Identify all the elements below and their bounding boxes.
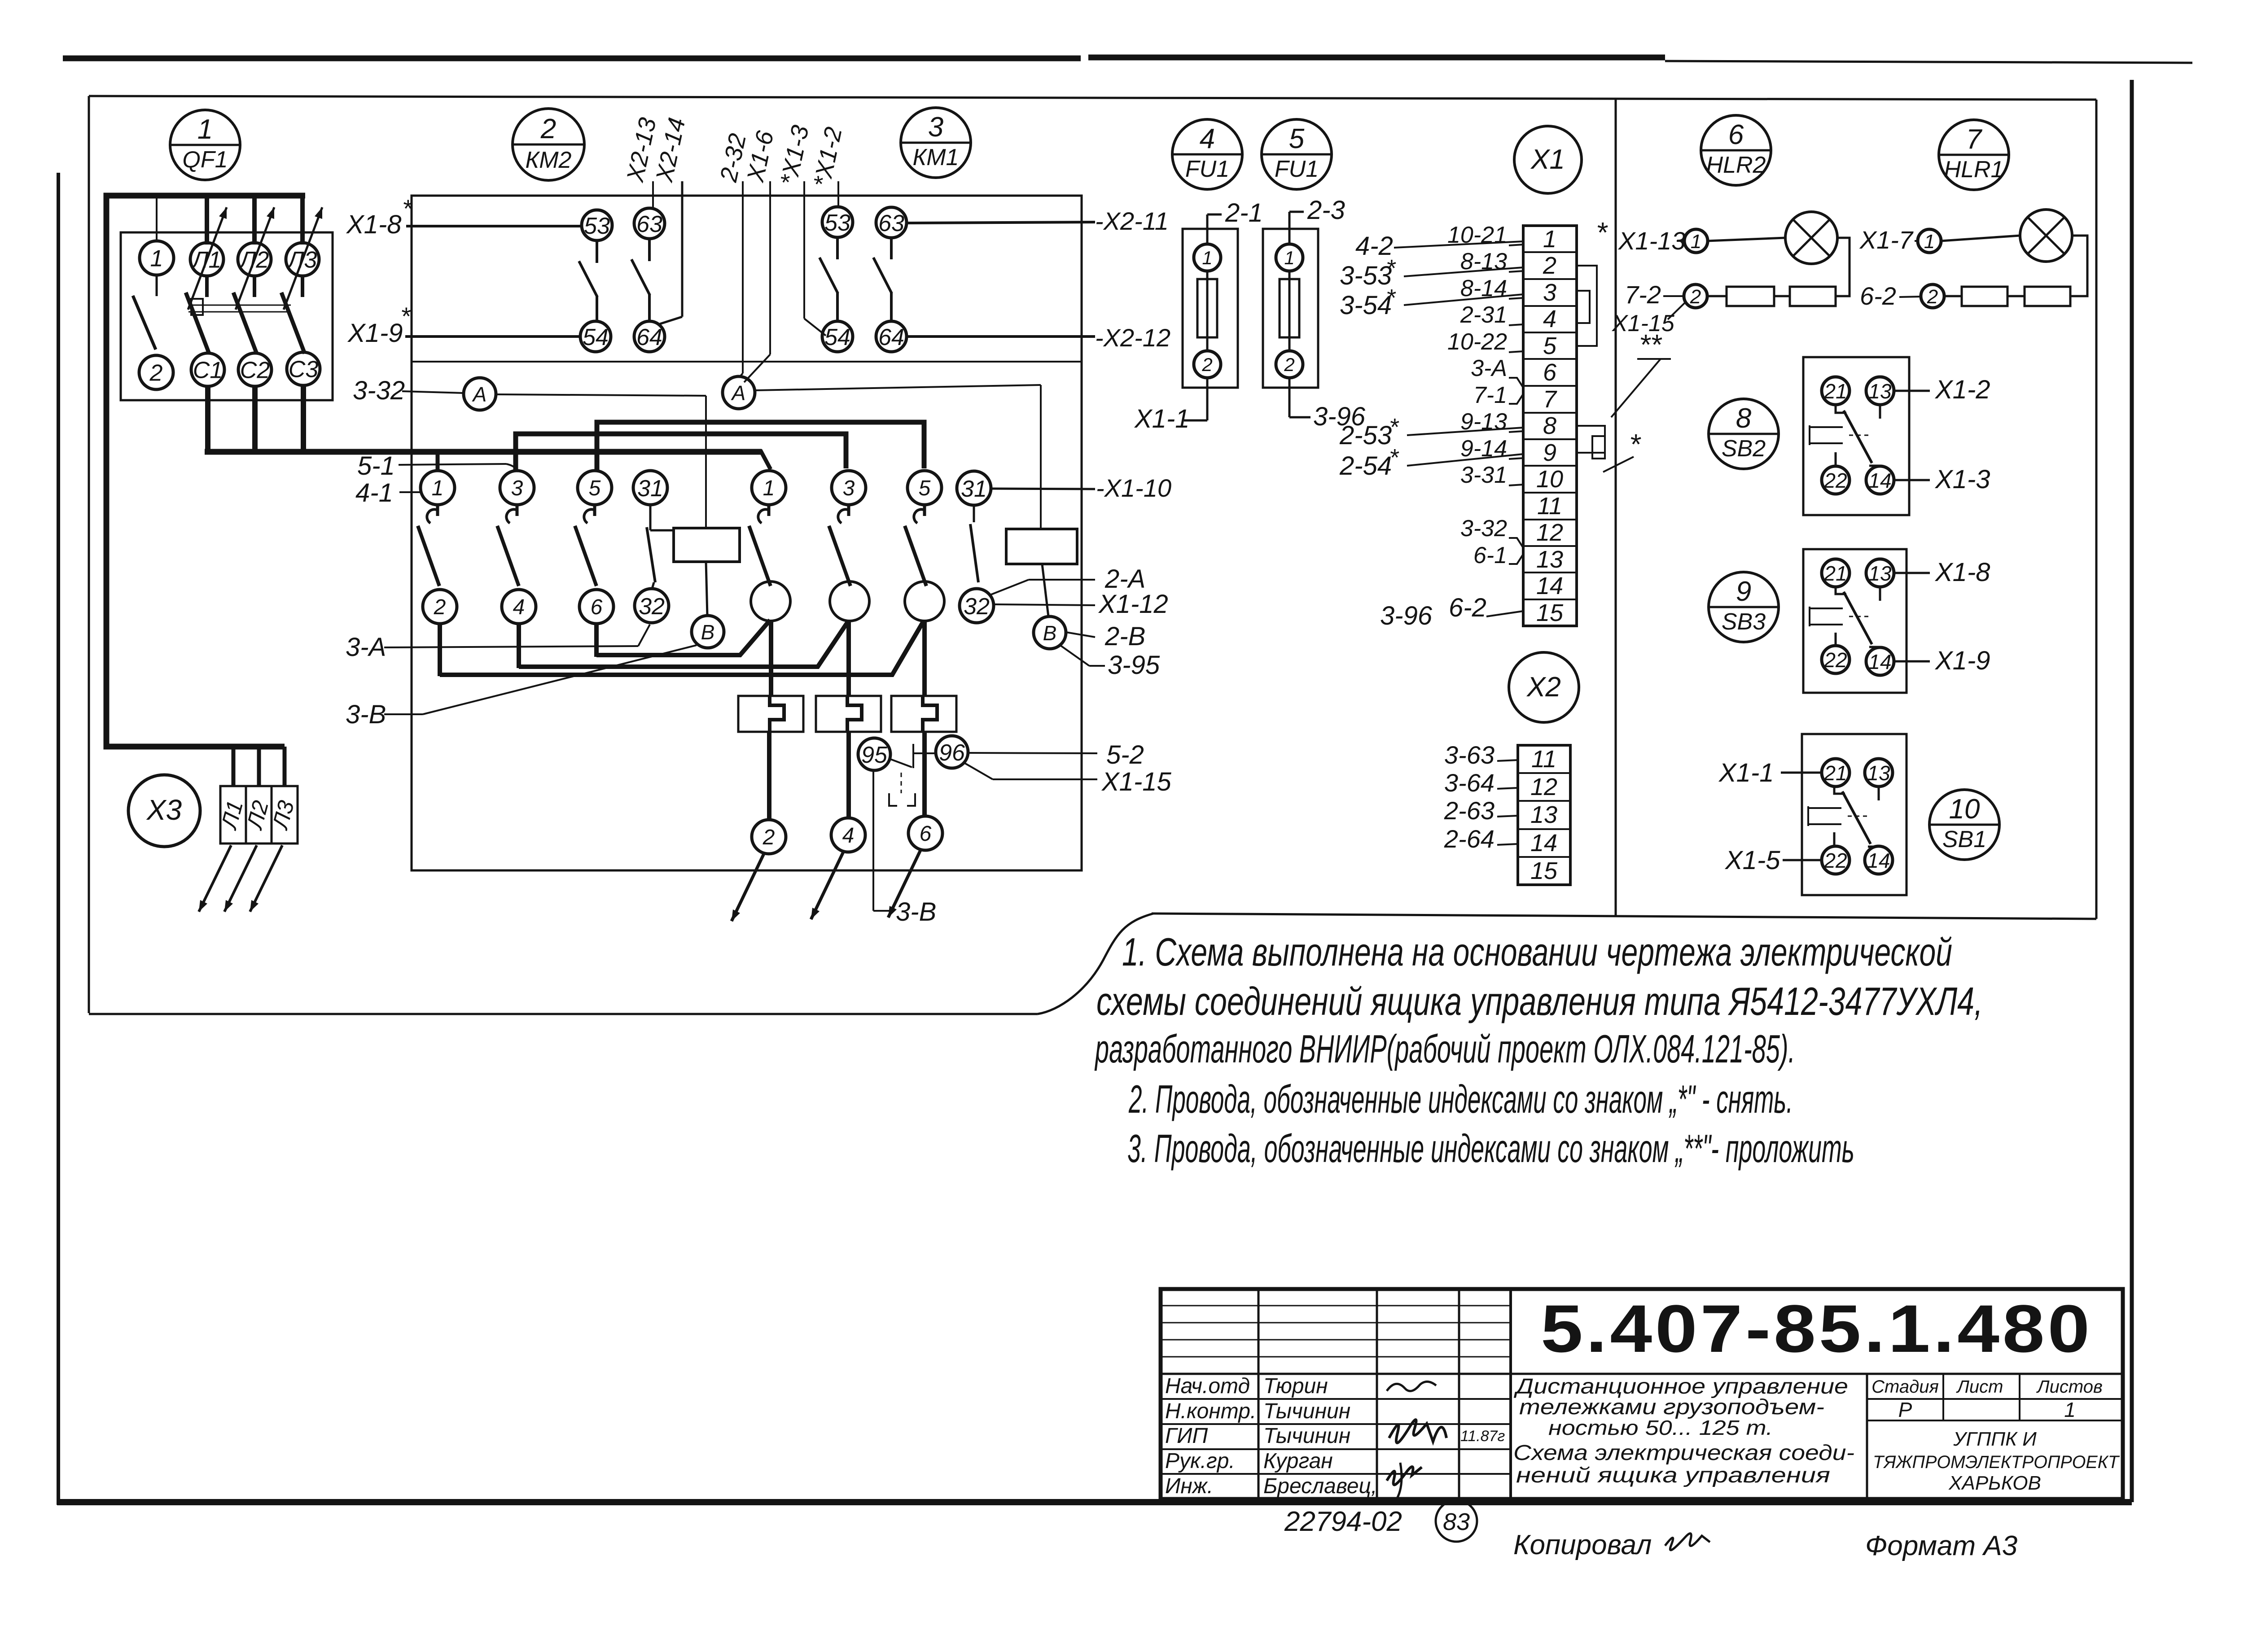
svg-text:7-1: 7-1	[1473, 382, 1507, 408]
svg-text:7: 7	[1966, 124, 1983, 155]
svg-text:3-А: 3-А	[346, 633, 386, 662]
svg-text:Стадия: Стадия	[1871, 1377, 1939, 1397]
crossover bus KM2:6 to KM1 pole 1	[596, 620, 770, 655]
KM2 aux terminal 53	[582, 210, 612, 240]
svg-text:15: 15	[1536, 599, 1564, 626]
wire C3 down	[301, 384, 306, 454]
svg-text:2-1: 2-1	[1225, 198, 1263, 227]
wire KM1 coil to node B	[1042, 564, 1048, 616]
SB3 terminal 13	[1866, 559, 1894, 587]
terminal strip X1 body	[1523, 226, 1577, 626]
svg-text:*: *	[1629, 428, 1641, 460]
border frame top line	[63, 56, 1081, 61]
svg-text:5-2: 5-2	[1106, 740, 1144, 769]
KM2 aux terminal 31	[633, 471, 667, 505]
svg-text:14: 14	[1868, 469, 1891, 492]
SB2 terminal 21	[1822, 377, 1850, 405]
title block column lines	[1258, 1289, 1260, 1499]
SB2 terminal 14	[1866, 466, 1894, 494]
svg-text:FU1: FU1	[1185, 156, 1229, 182]
QF1 supply bus wire	[106, 196, 305, 747]
svg-text:4: 4	[1543, 306, 1556, 332]
svg-text:22: 22	[1823, 648, 1847, 672]
wire SB2:14 to X1-3	[1894, 479, 1930, 481]
border frame bottom line	[57, 1499, 2132, 1505]
svg-text:ностью 50... 125 т.: ностью 50... 125 т.	[1548, 1416, 1773, 1439]
wire KM2 output 2 down	[438, 624, 442, 676]
connector X1 designator	[1514, 126, 1582, 193]
wire X1-8 to KM2:53	[406, 225, 581, 227]
X3 outgoing cable arrow	[199, 845, 231, 912]
QF1 pole 1-2 contact	[156, 275, 158, 296]
KM2 main contact pole 5	[593, 505, 596, 516]
outgoing cable arrow	[888, 850, 920, 918]
svg-text:32: 32	[639, 594, 665, 620]
node B (KM1 coil bottom)	[1034, 616, 1066, 649]
stage/sheet header	[1866, 1374, 1868, 1499]
svg-text:Копировал: Копировал	[1513, 1530, 1652, 1560]
fuse FU1-4 element	[1206, 271, 1209, 351]
svg-text:1: 1	[1691, 231, 1701, 253]
wire KM1:32 to X1-12	[994, 604, 1095, 605]
svg-text:22: 22	[1823, 849, 1847, 872]
svg-text:С2: С2	[240, 358, 270, 384]
overload aux terminal 96	[936, 736, 968, 768]
svg-text:КМ2: КМ2	[526, 147, 572, 173]
svg-text:3-А: 3-А	[1471, 355, 1507, 381]
svg-text:5: 5	[589, 476, 601, 500]
svg-text:Р: Р	[1898, 1398, 1912, 1421]
KM1 main terminal 5	[907, 471, 942, 505]
svg-text:53: 53	[584, 213, 610, 239]
svg-text:3-63: 3-63	[1444, 741, 1495, 769]
crossover bus KM2:4 to KM1 pole 3	[519, 622, 848, 667]
KM1 aux contact 63-64	[890, 238, 893, 259]
svg-text:12: 12	[1530, 774, 1557, 800]
svg-text:X1-1: X1-1	[1718, 758, 1774, 787]
svg-text:X1-13: X1-13	[1617, 227, 1685, 255]
svg-text:1: 1	[1202, 247, 1212, 268]
svg-text:SB1: SB1	[1942, 826, 1986, 852]
KM2 main terminal 6	[579, 590, 614, 624]
inner box divider wire row line	[412, 361, 1082, 363]
svg-text:3: 3	[928, 112, 943, 143]
QF1 drawout arrow	[236, 207, 274, 310]
svg-text:31: 31	[961, 476, 987, 502]
KM1 aux terminal 64	[876, 321, 907, 352]
svg-text:5: 5	[919, 476, 931, 500]
svg-text:3-54: 3-54	[1340, 291, 1392, 320]
svg-text:2: 2	[1690, 286, 1701, 308]
svg-text:10: 10	[1536, 466, 1563, 493]
lamp HLR1 terminal 2	[1921, 284, 1944, 308]
svg-text:13: 13	[1867, 761, 1890, 785]
svg-text:В: В	[1043, 621, 1057, 645]
KM2 main contact pole 1	[436, 505, 439, 516]
svg-text:Тычинин: Тычинин	[1263, 1424, 1350, 1448]
wire SB2:13 to X1-2	[1894, 390, 1930, 392]
fuse FU1-4 terminal 1	[1194, 244, 1221, 271]
X3 outgoing cable arrow	[224, 845, 257, 912]
wire 96 to X1-15	[964, 763, 993, 779]
svg-text:*: *	[1389, 444, 1399, 471]
wire 5-1	[399, 464, 506, 465]
svg-text:Бреславец,: Бреславец,	[1263, 1474, 1377, 1498]
svg-text:10: 10	[1949, 794, 1980, 825]
push button SB3 body	[1803, 549, 1907, 693]
svg-text:10-22: 10-22	[1447, 329, 1507, 355]
KM1 main contact pole 5	[923, 505, 926, 516]
svg-text:SB2: SB2	[1722, 436, 1766, 462]
KM1 aux terminal 53	[822, 207, 853, 237]
svg-text:HLR1: HLR1	[1944, 157, 2004, 183]
wire 2-3 to fuse 5	[1289, 212, 1291, 244]
svg-text:83: 83	[1443, 1508, 1470, 1535]
svg-text:1: 1	[197, 114, 213, 145]
svg-text:11: 11	[1537, 493, 1562, 520]
QF1 terminal C2	[238, 353, 272, 386]
svg-text:Н.контр.: Н.контр.	[1165, 1399, 1256, 1423]
svg-text:-X2-11: -X2-11	[1095, 207, 1169, 235]
svg-text:Инж.: Инж.	[1165, 1474, 1213, 1498]
wire 2-1 to fuse 4	[1206, 214, 1209, 244]
lamp HLR1 with resistors	[1941, 236, 2020, 241]
svg-text:13: 13	[1868, 380, 1892, 403]
phase bus KM2:5 to KM1:5	[597, 422, 924, 471]
svg-text:ГИП: ГИП	[1165, 1424, 1208, 1448]
KM1 main terminal 3	[832, 471, 866, 505]
fuse designator 5/FU1	[1262, 119, 1332, 189]
svg-text:1: 1	[2064, 1398, 2076, 1421]
svg-text:21: 21	[1823, 761, 1847, 785]
svg-text:22: 22	[1823, 469, 1847, 492]
X3 outgoing cable arrow	[250, 845, 282, 912]
svg-text:14: 14	[1867, 849, 1890, 872]
border frame left line	[57, 173, 60, 1505]
signatures	[1387, 1381, 1436, 1391]
svg-text:6-1: 6-1	[1473, 542, 1507, 568]
svg-text:2-3: 2-3	[1307, 196, 1345, 225]
svg-text:5: 5	[1289, 123, 1305, 154]
wire KM2 coil to node B	[706, 562, 707, 616]
fuse designator 4/FU1	[1172, 119, 1242, 189]
svg-text:2-63: 2-63	[1444, 796, 1495, 825]
contactor designator 2/KM2	[513, 109, 584, 180]
lamp designator 6/HLR2	[1701, 115, 1771, 185]
svg-text:3-53: 3-53	[1340, 261, 1392, 290]
svg-text:*: *	[400, 302, 411, 330]
svg-text:2-31: 2-31	[1460, 302, 1507, 328]
X1 jumper bracket cells 8-9	[1577, 426, 1605, 453]
wire bus drop L1	[205, 196, 209, 245]
wire X1-5 to SB1:22	[1783, 859, 1822, 861]
wire KM1 output 1 down	[769, 621, 773, 696]
breaker designator 1/QF1	[170, 110, 240, 180]
svg-text:96: 96	[939, 740, 965, 766]
fuse FU1-4 terminal 2	[1194, 351, 1221, 378]
svg-text:64: 64	[878, 324, 904, 350]
title block revision rows	[1161, 1305, 1511, 1307]
svg-text:6: 6	[1728, 119, 1744, 150]
KM1 pole joint 1	[751, 581, 790, 621]
svg-text:3: 3	[843, 476, 855, 500]
svg-text:3. Провода, обозначенные инде: 3. Провода, обозначенные индексами со зн…	[1127, 1126, 1854, 1171]
wire node A to KM1 coil	[755, 385, 1041, 390]
wire KM2:31 to coil	[649, 505, 652, 530]
push button SB1 body	[1802, 734, 1907, 895]
KM1 aux terminal 63	[876, 207, 907, 238]
SB3 contact mechanism	[1810, 607, 1843, 626]
svg-text:15: 15	[1530, 857, 1558, 884]
svg-text:КМ1: КМ1	[913, 144, 959, 170]
wire 3-A to KM2:32	[384, 646, 638, 647]
SB1 terminal 21	[1822, 759, 1850, 787]
svg-text:32: 32	[964, 594, 990, 620]
svg-text:6: 6	[591, 595, 603, 619]
svg-text:64: 64	[636, 324, 662, 350]
svg-text:А: А	[472, 383, 487, 406]
QF1 main pole contact	[205, 276, 209, 297]
KM2 main terminal 4	[502, 590, 536, 624]
QF1 drawout arrow	[188, 207, 227, 310]
wire fuse 4 to X1-1	[1206, 378, 1209, 420]
title block name rows	[1161, 1398, 1511, 1400]
wire C2 down	[252, 385, 258, 454]
svg-text:X1-8: X1-8	[346, 210, 402, 239]
wire X1-6 down to node A	[769, 181, 771, 354]
svg-text:X1: X1	[1530, 144, 1565, 175]
svg-text:21: 21	[1823, 380, 1847, 403]
output terminal 2	[752, 820, 786, 854]
X3 terminal L1	[220, 786, 246, 843]
lamp HLR2 terminal 1	[1684, 229, 1708, 253]
svg-text:УГППК И: УГППК И	[1953, 1428, 2037, 1450]
thermal overload heater KK phase 2	[816, 696, 881, 732]
svg-text:3-96: 3-96	[1380, 601, 1433, 630]
wire bus drop L2	[252, 196, 257, 245]
circuit breaker QF1 outline box	[121, 232, 333, 400]
svg-text:31: 31	[637, 476, 663, 502]
SB1 terminal 22	[1822, 846, 1850, 874]
wire 3-32 to node A	[402, 391, 464, 393]
KM1 aux terminal 54	[822, 321, 853, 352]
svg-text:3: 3	[1543, 279, 1556, 306]
svg-text:13: 13	[1536, 546, 1563, 573]
svg-text:*: *	[1386, 255, 1396, 282]
svg-text:*: *	[1596, 216, 1608, 249]
lamp designator 7/HLR1	[1939, 120, 2009, 190]
KM2 main terminal 5	[578, 471, 612, 505]
right section frame right edge	[2095, 100, 2098, 919]
terminal strip X2 body	[1518, 745, 1570, 885]
phase bus KM2:3 to KM1:3	[516, 434, 846, 471]
fuse FU1-5 body	[1263, 229, 1318, 388]
wire to output terminal 2	[767, 732, 771, 820]
svg-text:Рук.гр.: Рук.гр.	[1165, 1449, 1235, 1473]
svg-text:6-2: 6-2	[1449, 593, 1486, 622]
svg-text:2-64: 2-64	[1444, 825, 1495, 853]
svg-text:1: 1	[763, 476, 775, 500]
wire tap to KM2 contact 1	[436, 452, 440, 472]
SB1 terminal 13	[1865, 759, 1893, 787]
svg-text:X1-1: X1-1	[1134, 404, 1190, 433]
svg-text:7: 7	[1543, 386, 1557, 413]
KM2 main terminal 3	[500, 471, 534, 505]
KM2 coil	[674, 528, 740, 562]
SB1 contact mechanism	[1808, 806, 1841, 826]
svg-text:9: 9	[1543, 439, 1556, 466]
svg-text:X1-8: X1-8	[1934, 558, 1990, 587]
fuse FU1-5 terminal 1	[1276, 244, 1303, 271]
svg-text:95: 95	[861, 742, 888, 768]
svg-text:3-95: 3-95	[1108, 651, 1160, 680]
svg-text:Лист: Лист	[1956, 1377, 2003, 1397]
svg-text:схемы соединений ящика упра: схемы соединений ящика управления типа Я…	[1096, 979, 1983, 1023]
svg-text:X1-3: X1-3	[1934, 465, 1990, 494]
outgoing cable arrow	[732, 854, 764, 921]
fuse FU1-4 body	[1183, 229, 1238, 388]
main drawing frame	[89, 96, 2096, 100]
svg-text:X1-2: X1-2	[1934, 375, 1990, 404]
svg-text:Схема электрическая соеди-: Схема электрическая соеди-	[1513, 1441, 1854, 1465]
svg-text:X1-5: X1-5	[1724, 846, 1780, 875]
thermal overload heater KK phase 3	[891, 696, 956, 732]
svg-text:-X1-10: -X1-10	[1096, 474, 1171, 502]
svg-text:2: 2	[1543, 252, 1556, 279]
svg-text:Формат А3: Формат А3	[1865, 1530, 2017, 1561]
svg-text:14: 14	[1536, 573, 1563, 599]
svg-text:6-2: 6-2	[1860, 282, 1896, 310]
X1 jumper bracket cells 2-5	[1577, 266, 1597, 346]
svg-text:С3: С3	[289, 357, 319, 383]
svg-text:*: *	[402, 194, 413, 223]
X3 terminal L3	[272, 786, 298, 843]
KM2 aux terminal 64	[634, 321, 665, 352]
wire X1-1 to SB1:21	[1781, 772, 1822, 774]
wire KM1:63 to X2-11	[907, 222, 1095, 223]
svg-text:9: 9	[1736, 576, 1751, 607]
wire X1-2 down to KM1:53	[837, 181, 839, 205]
svg-text:54: 54	[583, 324, 609, 350]
svg-text:14: 14	[1530, 830, 1557, 857]
svg-text:2: 2	[1927, 286, 1938, 308]
QF1 terminal 2	[139, 355, 173, 389]
svg-text:6: 6	[920, 822, 932, 846]
wire drop to X3-L2	[257, 747, 261, 785]
wire drop to X3-L1	[232, 747, 236, 785]
svg-text:*: *	[1389, 414, 1399, 441]
main feed bus to contactors	[205, 449, 762, 455]
svg-text:53: 53	[824, 210, 850, 236]
svg-text:*: *	[1386, 284, 1396, 311]
node A (KM2 coil feed)	[464, 378, 496, 410]
KM2 aux terminal 32	[635, 589, 669, 623]
svg-text:2-53: 2-53	[1339, 421, 1392, 450]
wire X1-9 to KM2:54	[405, 335, 579, 338]
svg-text:С1: С1	[193, 358, 223, 384]
svg-text:63: 63	[636, 211, 662, 237]
wire KM1:32 to 2-A	[990, 580, 1029, 595]
KM1 coil	[1006, 529, 1077, 564]
svg-text:4: 4	[842, 824, 855, 848]
lamp HLR2 terminal 2	[1684, 284, 1707, 308]
wire bus drop pole1	[156, 196, 158, 242]
svg-text:X1-9: X1-9	[347, 319, 403, 348]
svg-text:54: 54	[824, 324, 850, 350]
connector X2 designator	[1509, 652, 1579, 722]
svg-text:QF1: QF1	[182, 147, 228, 173]
svg-text:2: 2	[540, 114, 556, 144]
fuse FU1-5 element	[1289, 271, 1291, 351]
svg-text:3-В: 3-В	[896, 897, 936, 927]
QF1 terminal L2	[238, 243, 271, 276]
outgoing cable arrow	[811, 852, 843, 919]
KM1 pole joint 3	[830, 581, 869, 621]
wire X2-14 down to KM2:64	[681, 181, 684, 317]
wire X1-3 down to KM1:54	[803, 181, 805, 319]
svg-text:4: 4	[513, 595, 525, 619]
svg-text:3-31: 3-31	[1460, 462, 1507, 488]
wire node B to 3-95	[1060, 645, 1089, 666]
KM1 pole joint 5	[905, 581, 944, 621]
svg-text:HLR2: HLR2	[1706, 152, 1766, 178]
svg-text:3-64: 3-64	[1444, 769, 1495, 797]
SB1 terminal 14	[1865, 846, 1893, 874]
SB2 terminal 13	[1866, 377, 1894, 405]
QF1 terminal C3	[287, 352, 320, 385]
svg-text:разработанного ВНИИР(рабочий: разработанного ВНИИР(рабочий проект ОЛХ.…	[1094, 1027, 1795, 1071]
KM1 main contact pole 3	[847, 505, 850, 516]
svg-text:2: 2	[1284, 354, 1294, 375]
thermal overload heater KK phase 1	[738, 696, 803, 732]
KM2 aux contact 63-64	[648, 239, 651, 261]
output terminal 6	[908, 816, 942, 850]
svg-text:X1-15: X1-15	[1101, 767, 1172, 796]
svg-text:2: 2	[1201, 354, 1212, 375]
svg-text:1: 1	[432, 476, 444, 500]
crossover bus KM2:2 to KM1 pole 5	[440, 621, 924, 675]
contactor designator 3/KM1	[901, 108, 971, 178]
svg-text:ТЯЖПРОМЭЛЕКТРОПРОЕКТ: ТЯЖПРОМЭЛЕКТРОПРОЕКТ	[1873, 1452, 2120, 1472]
svg-text:1: 1	[1543, 226, 1556, 253]
svg-text:нений ящика управления: нений ящика управления	[1516, 1464, 1830, 1487]
svg-text:-X2-12: -X2-12	[1095, 323, 1170, 352]
SB2 contact mechanism	[1810, 425, 1843, 445]
wire 4-1 to KM2:1	[399, 491, 421, 493]
wire SB3:14 to X1-9	[1894, 660, 1930, 663]
svg-text:6: 6	[1543, 359, 1557, 386]
wire node B to 2-B	[1066, 632, 1095, 637]
KM2 main terminal 1	[421, 471, 455, 505]
svg-text:X2: X2	[1526, 672, 1561, 703]
svg-text:8: 8	[1543, 412, 1556, 439]
section divider line	[1615, 98, 1617, 916]
wire KM1:31 to X1-10	[991, 489, 1095, 489]
KM2 aux terminal 63	[634, 208, 665, 239]
QF1 terminal 1	[140, 241, 174, 275]
KM2 aux terminal 54	[580, 321, 611, 352]
footer sheet stamp 83	[1436, 1500, 1477, 1542]
lamp HLR2 with resistors	[1708, 238, 1785, 241]
inner contactor box	[412, 196, 1082, 870]
wire C1 down	[205, 385, 210, 454]
svg-text:11: 11	[1531, 746, 1556, 773]
wire fuse 5 to 3-96	[1289, 378, 1291, 417]
QF1 terminal C1	[191, 353, 224, 386]
svg-text:2: 2	[434, 595, 446, 619]
svg-text:Курган: Курган	[1263, 1449, 1333, 1473]
wire to output terminal 6	[922, 732, 927, 816]
